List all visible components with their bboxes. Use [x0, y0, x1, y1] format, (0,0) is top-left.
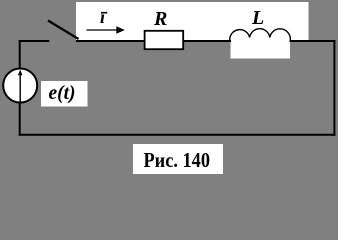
svg-text:e(t): e(t)	[49, 82, 76, 104]
svg-text:ı: ı	[100, 7, 105, 27]
svg-text:L: L	[251, 7, 264, 29]
svg-text:Рис. 140: Рис. 140	[144, 148, 211, 172]
svg-text:R: R	[153, 8, 167, 30]
